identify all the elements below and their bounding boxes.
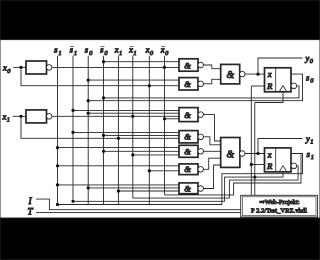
wire D to U2 <box>203 158 220 169</box>
inverter V1 (x0) <box>26 61 47 74</box>
gate G2 output bubble <box>198 81 204 87</box>
svg-text:1: 1 <box>7 117 10 124</box>
net label s0-bar (bus header) <box>100 45 108 57</box>
svg-text:R: R <box>266 81 273 91</box>
node A s0 tap <box>87 112 90 115</box>
nand gate B <box>179 131 198 143</box>
net label s1-bar (bus header) <box>70 45 78 57</box>
node C s0-bar tap <box>102 150 105 153</box>
wire x0 input <box>13 66 26 68</box>
wire FF1 clock <box>255 92 283 103</box>
FF1 inverted output bubble <box>291 83 297 89</box>
wire gate E input s0 <box>88 187 179 189</box>
flip-flop register FF2 (state s1) <box>265 148 292 172</box>
wire FF2 Qbar output feedback <box>133 166 298 198</box>
net label s0 (bus header) <box>85 45 93 57</box>
nand gate A <box>179 108 198 122</box>
wire B to U2 <box>203 137 220 145</box>
wire x1 bypass <box>21 116 179 138</box>
wire FF1 R input <box>251 85 264 87</box>
input label T <box>28 207 34 217</box>
net label x1 (bus header) <box>114 45 123 57</box>
node A s1-bar tap <box>71 109 74 112</box>
wire x1-bar row (V2 out to gate A) <box>52 115 179 117</box>
wire U2 output to FF2 <box>245 153 265 155</box>
wire gate B input s1-bar <box>73 131 179 133</box>
node B s0-bar tap <box>102 134 105 137</box>
gate U2 output bubble <box>240 151 246 157</box>
svg-text:1: 1 <box>119 50 122 57</box>
output label y1 <box>305 133 314 145</box>
gate U1 output bubble <box>240 71 246 77</box>
wire gate C input s0-bar <box>104 150 180 152</box>
wire A to U2 <box>203 115 220 141</box>
and gate U2 <box>221 138 240 168</box>
svg-text:x: x <box>267 69 272 79</box>
wire G1 input s0-bar <box>104 61 180 63</box>
wire bus x0-bar vertical <box>164 56 166 195</box>
inverter V2 output bubble <box>46 114 52 120</box>
wire gate A input s1-bar <box>73 109 179 111</box>
node x1 bus tap <box>117 137 120 140</box>
wire gate A input s0 <box>88 112 179 114</box>
svg-text:⇒Web-Projekt:: ⇒Web-Projekt: <box>259 199 300 206</box>
wire gate D input x0 <box>149 170 179 172</box>
wire I input <box>36 86 251 210</box>
gate E output bubble <box>198 186 204 192</box>
wire gate B input s0-bar <box>104 134 180 136</box>
svg-text:x: x <box>145 45 150 55</box>
wire FF2 clock <box>255 172 283 177</box>
inverter V1 output bubble <box>46 65 52 71</box>
gate D output bubble <box>198 167 204 173</box>
wire FF1 Qbar output (s0-bar) <box>104 86 300 98</box>
wire x0-bar row (V1 out to gate G1) <box>52 66 179 68</box>
wire bus x1-bar vertical <box>132 56 134 198</box>
svg-text:x: x <box>160 45 165 55</box>
svg-text:&: & <box>184 183 191 193</box>
node E s0 tap <box>87 186 90 189</box>
node s0 feedback tap <box>87 99 90 102</box>
wire FF1 Q output (s0) <box>88 74 302 101</box>
node x0 bus tap <box>148 84 151 87</box>
nand gate D <box>179 164 198 175</box>
and gate U1 <box>221 64 240 84</box>
wire y1 output <box>258 139 303 154</box>
svg-text:x: x <box>2 63 7 73</box>
node A x0-bar tap <box>163 117 166 120</box>
svg-text:R: R <box>266 161 273 171</box>
annotation box Web-Projekt <box>241 195 318 217</box>
svg-text:x: x <box>114 45 119 55</box>
node x0 input junction <box>19 66 22 69</box>
nand gate G1 <box>179 59 198 71</box>
wire FF2 Q output (s1 feedback) <box>58 154 303 205</box>
svg-text:x: x <box>2 112 7 122</box>
svg-text:&: & <box>184 60 191 70</box>
gate B output bubble <box>198 134 204 140</box>
wire gate A input x0-bar <box>165 118 180 120</box>
node x1 input junction <box>19 115 22 118</box>
wire y0 output <box>258 58 303 74</box>
svg-text:1: 1 <box>58 50 61 57</box>
inverter V2 (x1) <box>26 110 47 123</box>
node s1-bar feedback tap <box>71 200 74 203</box>
wire x1 input <box>13 115 26 117</box>
svg-text:y: y <box>305 53 310 63</box>
svg-text:1: 1 <box>311 154 314 161</box>
node B s1-bar tap <box>71 131 74 134</box>
net label s1 (bus header) <box>54 45 62 57</box>
wire gate E input s1 <box>58 184 180 186</box>
wire gate C input s1 <box>58 147 180 149</box>
net label x1-bar (bus header) <box>128 45 137 57</box>
wire G1 to U1 <box>203 65 220 69</box>
wire U1 output to FF1 <box>245 73 265 75</box>
svg-text:y: y <box>305 133 310 143</box>
node x1-bar bus tap <box>131 115 134 118</box>
wire G2 input s0 <box>88 79 179 81</box>
input label x0 <box>2 63 11 75</box>
net label x0 (bus header) <box>145 45 154 57</box>
svg-text:x: x <box>128 45 133 55</box>
node C x1-bar tap <box>131 153 134 156</box>
node FF2 R tap on I line <box>250 163 253 166</box>
node D s1 tap <box>56 164 59 167</box>
node E s1 tap <box>56 183 59 186</box>
node D x0 tap <box>148 169 151 172</box>
wire bus x0 vertical <box>148 56 150 205</box>
gate A output bubble <box>198 112 204 118</box>
input label I <box>28 197 33 207</box>
svg-text:&: & <box>184 110 191 120</box>
svg-text:&: & <box>227 70 235 81</box>
wire C to U2 <box>203 150 220 152</box>
wire bus x1 vertical <box>117 56 119 205</box>
wire x0 bypass <box>21 67 179 85</box>
wire bus s1-bar vertical <box>72 56 74 202</box>
node G2 s0 tap <box>87 79 90 82</box>
output label y0 <box>305 53 314 65</box>
svg-text:&: & <box>184 79 191 89</box>
node s0-bar feedback tap <box>102 96 105 99</box>
svg-text:&: & <box>184 132 191 142</box>
FF2 inverted output bubble <box>291 163 297 169</box>
svg-text:&: & <box>184 147 191 157</box>
svg-text:P 2.2/Test_VRZ.vhdl: P 2.2/Test_VRZ.vhdl <box>251 207 307 214</box>
wire gate D input s1 <box>58 165 180 167</box>
node FF2 clock tap on T line <box>253 176 256 179</box>
flip-flop register FF1 (state s0) <box>265 68 292 92</box>
input label x1 <box>2 112 11 124</box>
wire E to U2 <box>203 165 220 189</box>
output label s1 <box>307 149 315 161</box>
svg-text:&: & <box>184 164 191 174</box>
node s1 feedback tap <box>56 203 59 206</box>
wire G2 to U1 <box>203 79 220 84</box>
wire T input (clock) <box>36 103 255 213</box>
nand gate C <box>179 145 198 157</box>
wire bus s0-bar vertical <box>103 56 105 205</box>
wire bus s1 vertical <box>57 56 59 205</box>
svg-text:1: 1 <box>133 50 136 57</box>
wire FF2 R input <box>251 164 264 166</box>
node G1 s0-bar tap <box>102 60 105 63</box>
wire gate E input x1 <box>118 190 179 192</box>
node U1 output junction <box>256 73 259 76</box>
node U2 output junction <box>256 152 259 155</box>
svg-text:&: & <box>227 149 235 160</box>
svg-text:T: T <box>28 207 34 217</box>
gate C output bubble <box>198 149 204 155</box>
nand gate E <box>179 183 198 194</box>
wire s1 state feedback inner loop <box>165 154 302 195</box>
wire bus s0 vertical <box>87 56 89 205</box>
svg-text:1: 1 <box>310 139 313 146</box>
node E x1 tap <box>117 189 120 192</box>
wire clock loop to s1-bar bus <box>73 177 255 201</box>
svg-text:1: 1 <box>74 50 77 57</box>
nand gate G2 <box>179 78 198 90</box>
net label x0-bar (bus header) <box>160 45 169 57</box>
node C s1 tap <box>56 146 59 149</box>
node x0-bar bus tap <box>163 66 166 69</box>
gate G1 output bubble <box>198 62 204 68</box>
svg-text:x: x <box>267 149 272 159</box>
wire gate C input x1-bar <box>133 154 179 156</box>
output label s0 <box>306 72 314 84</box>
